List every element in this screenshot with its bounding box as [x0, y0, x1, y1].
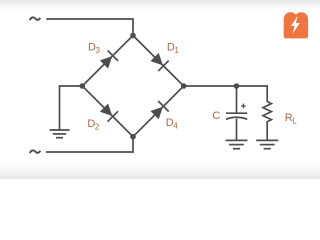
node: output junction at capacitor	[234, 83, 240, 89]
svg-text:3: 3	[96, 46, 101, 55]
svg-text:L: L	[292, 117, 297, 126]
label D1	[167, 41, 180, 55]
label D4	[166, 117, 179, 131]
wire: left node to ground	[60, 86, 83, 130]
diode D1 (top node to right node)	[149, 52, 168, 71]
node: bridge right	[181, 83, 187, 89]
svg-text:1: 1	[174, 46, 179, 55]
wire: capacitor top lead	[236, 86, 238, 113]
logo: orange toast icon with lightning bolt	[284, 12, 308, 38]
node: bridge left	[80, 83, 86, 89]
label D2	[87, 118, 100, 132]
capacitor C	[226, 113, 247, 119]
wire: top AC to top bridge node	[46, 19, 133, 36]
svg-text:2: 2	[95, 122, 100, 131]
node: bridge top	[130, 33, 136, 39]
ground (left, AC reference)	[50, 130, 70, 138]
wire: bridge diamond edges	[82, 36, 183, 137]
label D3	[88, 42, 101, 56]
capacitor + polarity mark	[241, 104, 246, 109]
ground (below capacitor)	[226, 140, 248, 148]
wire: capacitor bottom lead	[236, 119, 238, 140]
wire: bottom AC to bottom bridge node	[46, 137, 133, 152]
AC source top (~)	[30, 17, 41, 20]
diode D4 (bottom node to right node)	[149, 101, 168, 120]
resistor RL (zigzag)	[263, 102, 271, 140]
svg-text:4: 4	[173, 122, 178, 131]
svg-text:C: C	[212, 110, 220, 122]
label RL	[285, 112, 298, 125]
node: bridge bottom	[130, 134, 136, 140]
ground (below resistor RL)	[256, 140, 278, 148]
wire: right node to output / resistor branch	[184, 86, 268, 102]
diode D2 (left node to bottom node)	[99, 102, 118, 121]
diode D3 (left node to top node)	[99, 50, 118, 69]
AC source bottom (~)	[30, 150, 41, 153]
